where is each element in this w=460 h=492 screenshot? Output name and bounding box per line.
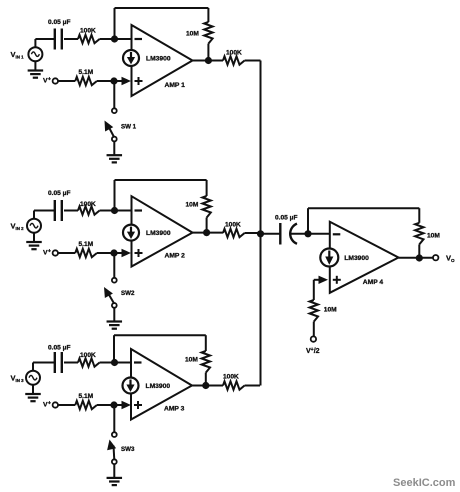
svg-text:100K: 100K xyxy=(223,374,239,381)
svg-text:100K: 100K xyxy=(225,222,241,229)
svg-text:100K: 100K xyxy=(80,352,96,359)
svg-text:10M: 10M xyxy=(324,307,337,314)
svg-text:0.05 µF: 0.05 µF xyxy=(48,190,71,197)
svg-text:10M: 10M xyxy=(186,202,199,209)
svg-text:SW2: SW2 xyxy=(121,290,135,297)
svg-text:AMP 2: AMP 2 xyxy=(165,253,186,260)
svg-text:0.05 µF: 0.05 µF xyxy=(48,345,71,352)
svg-text:100K: 100K xyxy=(226,50,242,57)
svg-text:SW 1: SW 1 xyxy=(121,124,137,131)
svg-text:AMP 3: AMP 3 xyxy=(164,406,185,413)
svg-text:100K: 100K xyxy=(80,201,96,208)
svg-text:0.05 µF: 0.05 µF xyxy=(48,19,71,26)
svg-text:100K: 100K xyxy=(80,28,96,35)
svg-text:LM3900: LM3900 xyxy=(146,383,171,390)
svg-text:10M: 10M xyxy=(186,31,199,38)
svg-text:5.1M: 5.1M xyxy=(79,393,94,400)
svg-text:0.05 µF: 0.05 µF xyxy=(275,215,298,222)
svg-text:LM3900: LM3900 xyxy=(146,56,171,63)
svg-text:AMP 4: AMP 4 xyxy=(363,279,384,286)
svg-text:5.1M: 5.1M xyxy=(79,69,94,76)
svg-text:10M: 10M xyxy=(427,233,440,240)
svg-text:V+/2: V+/2 xyxy=(306,347,320,355)
svg-text:SeekIC.com: SeekIC.com xyxy=(393,477,456,489)
svg-text:LM3900: LM3900 xyxy=(146,230,171,237)
svg-text:5.1M: 5.1M xyxy=(79,241,94,248)
svg-text:SW3: SW3 xyxy=(121,446,135,453)
svg-text:AMP 1: AMP 1 xyxy=(165,82,186,89)
svg-text:10M: 10M xyxy=(185,357,198,364)
svg-text:LM3900: LM3900 xyxy=(344,255,369,262)
